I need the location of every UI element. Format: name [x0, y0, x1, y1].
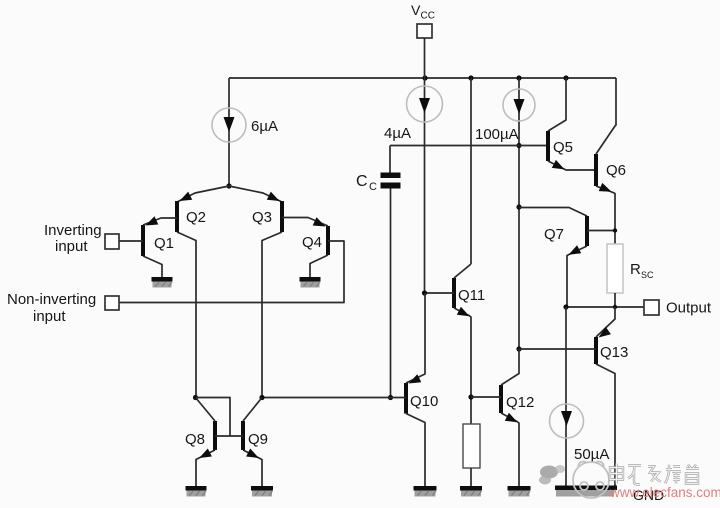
svg-text:V: V [411, 2, 421, 18]
svg-text:Q4: Q4 [302, 234, 322, 251]
svg-text:100µA: 100µA [475, 126, 519, 143]
svg-text:Non-inverting: Non-inverting [7, 291, 96, 308]
svg-text:Q1: Q1 [154, 235, 174, 252]
svg-text:Q2: Q2 [186, 209, 206, 226]
svg-text:SC: SC [641, 270, 654, 280]
svg-text:Q6: Q6 [606, 162, 626, 179]
svg-text:www.elecfans.com: www.elecfans.com [609, 485, 720, 500]
svg-text:Q11: Q11 [458, 287, 485, 304]
svg-text:C: C [369, 181, 377, 193]
svg-text:C: C [356, 173, 368, 190]
svg-text:Q13: Q13 [600, 344, 628, 361]
svg-text:input: input [55, 238, 88, 255]
svg-text:Q7: Q7 [544, 226, 564, 243]
svg-text:Q5: Q5 [553, 139, 573, 156]
svg-text:6µA: 6µA [251, 118, 278, 135]
svg-text:Q8: Q8 [185, 431, 205, 448]
svg-text:Q10: Q10 [410, 393, 438, 410]
svg-text:Q9: Q9 [248, 431, 268, 448]
svg-text:input: input [33, 308, 66, 325]
svg-text:Q3: Q3 [252, 209, 272, 226]
svg-text:Output: Output [666, 300, 712, 317]
svg-text:R: R [630, 261, 641, 278]
svg-text:CC: CC [421, 11, 435, 22]
svg-text:Inverting: Inverting [44, 222, 102, 239]
svg-text:50µA: 50µA [574, 446, 609, 463]
svg-text:4µA: 4µA [384, 125, 411, 142]
svg-text:Q12: Q12 [506, 394, 534, 411]
